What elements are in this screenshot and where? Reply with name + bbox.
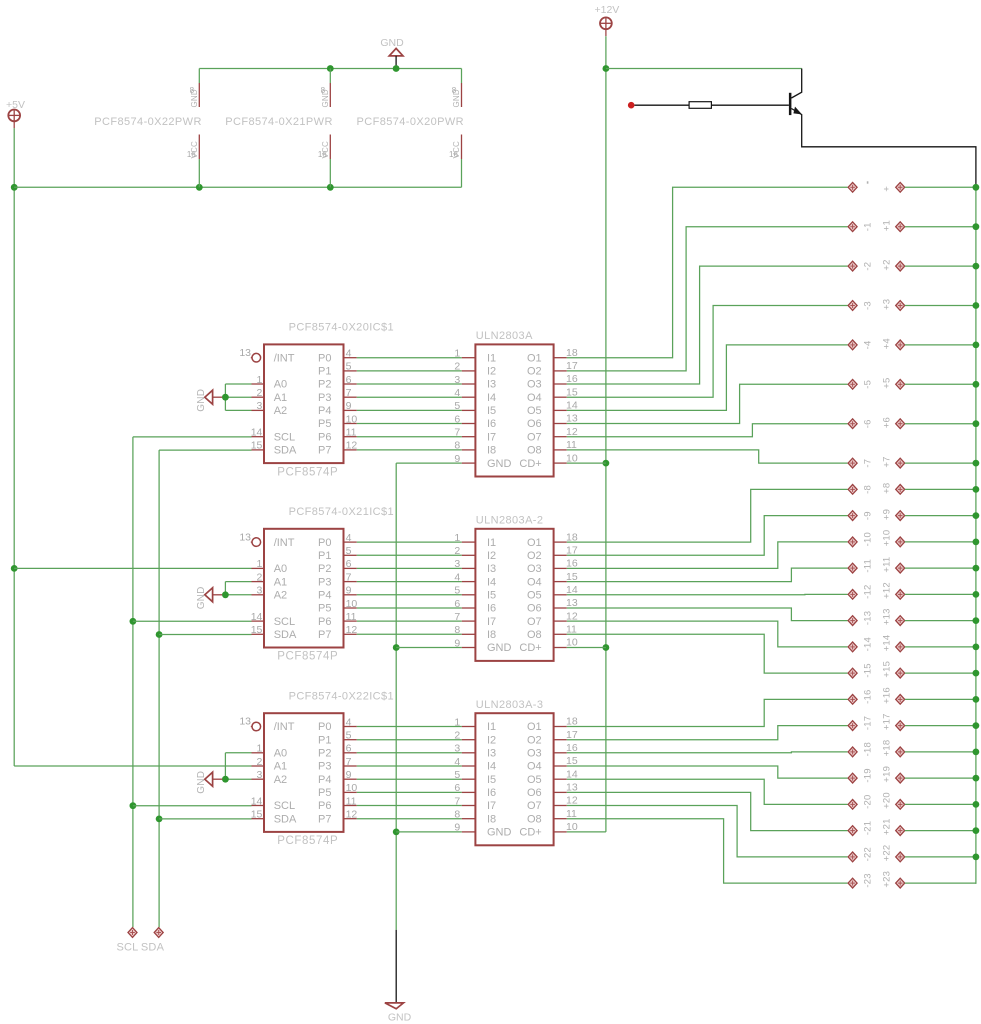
pin 15 SDA stub of PCF8574-0X20IC$1 [252,449,265,451]
svg-text:-13: -13 [862,611,873,625]
wire PCF8574-0X20PWR VCC pin [461,159,463,187]
pin 9 P4 stub of PCF8574-0X20IC$1 [344,409,357,411]
wire + pin row 20 to + rail [905,803,976,805]
pin 6 I6 stub of ULN2803A-2 [462,607,476,609]
wire PCF8574-0X22PWR VCC pin [198,159,200,187]
wire ULN2803A-3 O1 to connector row 16 [567,699,848,726]
node junction VCC rail / PWR21 [327,184,334,191]
svg-text:1: 1 [454,716,460,728]
svg-text:PCF8574-0X20PWR: PCF8574-0X20PWR [357,116,465,128]
pin 13 /INT bubble of PCF8574-0X22IC$1 [251,726,252,728]
node junction + rail row 17 [973,722,980,729]
svg-text:-16: -16 [862,690,873,704]
svg-text:3: 3 [257,585,263,597]
wire SCL bus rail [132,437,134,927]
wire ULN2803A O5 to connector row 4 [567,345,848,411]
svg-text:SDA: SDA [141,942,165,954]
pin 7 I7 stub of ULN2803A [462,436,476,438]
pin 6 I6 stub of ULN2803A [462,423,476,425]
transistor Q1 base bar [789,93,792,115]
svg-text:7: 7 [454,795,460,807]
wire tie row to pin of PCF8574-0X22IC$1 [225,778,251,780]
wire P3 to I4 [357,581,462,583]
wire + pin row 11 to + rail [905,567,976,569]
svg-text:-23: -23 [862,873,873,887]
svg-text:-2: -2 [862,262,873,271]
svg-text:+5: +5 [881,378,892,389]
svg-text:+: + [881,186,892,192]
wire + pin row 14 to + rail [905,646,976,648]
svg-text:+7: +7 [881,456,892,467]
svg-text:-20: -20 [862,795,873,809]
svg-text:-21: -21 [862,821,873,835]
svg-text:O7: O7 [527,431,542,443]
svg-text:I5: I5 [487,590,496,602]
svg-text:7: 7 [454,427,460,439]
wire address pin row to tie of PCF8574-0X22IC$1 [225,752,251,754]
svg-text:11: 11 [346,427,357,439]
wire SDA bus rail [158,450,160,927]
node junction + rail row 8 [973,486,980,493]
wire ULN2803A CD+ to +12V rail [567,462,606,464]
svg-text:O4: O4 [527,576,542,588]
svg-text:-5: -5 [862,380,873,389]
node junction SCL / IC3 [130,802,137,809]
node junction SCL / IC2 [130,618,137,625]
ground symbol GND (bottom) [385,1003,404,1009]
svg-text:I6: I6 [487,418,496,430]
svg-text:P2: P2 [318,379,331,391]
svg-text:13: 13 [239,531,251,543]
pin 18 O1 stub of ULN2803A-3 [554,726,567,728]
wire SCL to IC2 pin 14 [133,620,252,622]
pin 10 P5 stub of PCF8574-0X22IC$1 [344,791,357,793]
svg-text:-12: -12 [862,585,873,599]
wire + pin row 1 to + rail [905,226,976,228]
wire + pin row 5 to + rail [905,383,976,385]
svg-text:3: 3 [454,374,460,386]
node junction + rail row 12 [973,591,980,598]
svg-text:I1: I1 [487,537,496,549]
svg-text:9: 9 [346,400,352,412]
wire P0 to I1 [357,726,462,728]
svg-text:+6: +6 [881,417,892,428]
node junction GND rail / ULN2 GND [393,644,400,651]
svg-text:I7: I7 [487,616,496,628]
svg-text:I8: I8 [487,813,496,825]
pin connector +10 (row 10) right diamond [896,537,905,547]
wire tie row to pin of PCF8574-0X20IC$1 [225,396,251,398]
svg-text:7: 7 [346,756,352,768]
pin connector + (row 0) right diamond [896,182,905,192]
svg-text:-10: -10 [862,532,873,546]
svg-text:I2: I2 [487,550,496,562]
svg-text:O5: O5 [527,405,542,417]
svg-text:O2: O2 [527,550,542,562]
svg-text:2: 2 [257,571,263,583]
wire ULN2803A O1 to connector row 0 [567,187,848,357]
wire base net right [711,104,789,106]
op-amp PCF8574-0X21IC$1 (PCF8574 I/O expander U2) [264,529,344,648]
svg-text:I3: I3 [487,748,496,760]
svg-text:5: 5 [454,400,460,412]
wire ULN2803A-2 O3 to connector row 10 [567,542,848,569]
pin 8 GND stub of PCF8574-0X22PWR [198,83,200,107]
svg-text:P3: P3 [318,761,331,773]
pin 13 O6 stub of ULN2803A-3 [554,791,567,793]
pin 4 P0 stub of PCF8574-0X21IC$1 [344,541,357,543]
pin 2 A1 stub of PCF8574-0X22IC$1 [252,765,265,767]
svg-text:P3: P3 [318,576,331,588]
pin stub of +12V symbol [605,29,607,36]
svg-text:SDA: SDA [274,629,297,641]
pin 17 O2 stub of ULN2803A-3 [554,739,567,741]
svg-text:+12V: +12V [594,4,619,16]
wire ULN2803A O7 to connector row 6 [567,424,848,437]
svg-text:2: 2 [257,756,263,768]
wire + pin row 17 to + rail [905,725,976,727]
svg-text:6: 6 [346,374,352,386]
svg-text:8: 8 [454,809,460,821]
svg-text:GND: GND [196,586,207,609]
wire ULN2803A-2 O2 to connector row 9 [567,516,848,556]
wire + pin row 0 to + rail [905,186,976,188]
node junction GND rail / ULN3 GND [393,829,400,836]
pin 3 A2 stub of PCF8574-0X20IC$1 [252,409,265,411]
pin connector -8 (row 8) left diamond [848,485,857,495]
wire + pin row 16 to + rail [905,698,976,700]
svg-text:PCF8574-0X22PWR: PCF8574-0X22PWR [94,116,202,128]
wire + pin row 22 to + rail [905,856,976,858]
wire SDA to IC2 pin 15 [159,634,251,636]
pin connector -11 (row 11) left diamond [848,563,857,573]
pin 4 I4 stub of ULN2803A [462,396,476,398]
svg-text:14: 14 [251,427,263,439]
node junction + rail row 21 [973,827,980,834]
svg-text:O8: O8 [527,445,542,457]
pin 1 I1 stub of ULN2803A [462,357,476,359]
pin connector -3 (row 3) left diamond [848,301,857,311]
svg-text:-22: -22 [862,847,873,861]
svg-text:8: 8 [190,86,195,95]
node junction VCC rail / PWR22 [196,184,203,191]
pin 16 O3 stub of ULN2803A [554,383,567,385]
svg-text:-15: -15 [862,663,873,677]
svg-text:5: 5 [454,769,460,781]
svg-text:A1: A1 [274,761,287,773]
pin 6 P2 stub of PCF8574-0X22IC$1 [344,752,357,754]
wire P5 to I6 [357,607,462,609]
svg-text:SCL: SCL [274,431,295,443]
svg-text:PCF8574P: PCF8574P [277,835,338,847]
wire tie row to pin of PCF8574-0X21IC$1 [225,594,251,596]
pin connector -16 (row 16) left diamond [848,695,857,705]
wire + pin row 9 to + rail [905,515,976,517]
pin 7 P3 stub of PCF8574-0X20IC$1 [344,396,357,398]
node junction +12V rail / ULN1 CD+ [603,460,610,467]
pin connector -20 (row 20) left diamond [848,800,857,810]
svg-text:P7: P7 [318,813,331,825]
wire address tie vertical of PCF8574-0X21IC$1 [224,582,226,595]
pin 8 I8 stub of ULN2803A-3 [462,818,476,820]
pin 12 P7 stub of PCF8574-0X22IC$1 [344,818,357,820]
pin 2 A1 stub of PCF8574-0X20IC$1 [252,396,265,398]
wire P2 to I3 [357,383,462,385]
wire SDA to IC3 pin 15 [159,818,251,820]
svg-text:14: 14 [251,795,263,807]
pin connector -7 (row 7) left diamond [848,458,857,468]
wire ULN2803A-2 O4 to connector row 11 [567,568,848,582]
pin 16 O3 stub of ULN2803A-3 [554,752,567,754]
svg-text:O4: O4 [527,761,542,773]
svg-text:P5: P5 [318,418,331,430]
svg-text:3: 3 [257,769,263,781]
pin connector -23 (row 23) left diamond [848,878,857,888]
wire ULN2803A-2 O1 to connector row 8 [567,489,848,542]
svg-text:-9: -9 [862,511,873,520]
svg-text:14: 14 [251,611,263,623]
node junction + rail row 1 [973,223,980,230]
wire ULN2803A O4 to connector row 3 [567,306,848,398]
wire PCF8574-0X21PWR GND pin [329,69,331,84]
pin 7 P3 stub of PCF8574-0X22IC$1 [344,765,357,767]
wire + pin row 2 to + rail [905,265,976,267]
transistor Q1 emitter arrow [793,107,802,115]
node junction + rail row 19 [973,775,980,782]
pin 11 P6 stub of PCF8574-0X20IC$1 [344,436,357,438]
svg-text:ULN2803A-3: ULN2803A-3 [476,699,544,711]
svg-text:+3: +3 [881,299,892,310]
wire + output rail (right) [975,187,977,884]
node junction + rail row 6 [973,420,980,427]
svg-text:ULN2803A-2: ULN2803A-2 [476,515,544,527]
svg-text:-7: -7 [862,459,873,468]
svg-text:CD+: CD+ [519,827,541,839]
wire + pin row 4 to + rail [905,344,976,346]
wire ULN2803A-3 O6 to connector row 21 [567,792,848,830]
pin connector +2 (row 2) right diamond [896,261,905,271]
pin connector +6 (row 6) right diamond [896,419,905,429]
svg-text:-19: -19 [862,768,873,782]
pin 11 O8 stub of ULN2803A-3 [554,818,567,820]
pin 12 P7 stub of PCF8574-0X20IC$1 [344,449,357,451]
pin connector +8 (row 8) right diamond [896,485,905,495]
svg-text:+12: +12 [881,582,892,599]
svg-text:10: 10 [346,598,358,610]
svg-text:+18: +18 [881,740,892,757]
svg-text:PCF8574P: PCF8574P [277,651,338,663]
pin connector +3 (row 3) right diamond [896,301,905,311]
pin 10 CD+ stub of ULN2803A-3 [554,831,567,833]
pin 17 O2 stub of ULN2803A [554,370,567,372]
svg-text:+20: +20 [881,792,892,809]
svg-text:O3: O3 [527,379,542,391]
svg-text:CD+: CD+ [519,642,541,654]
pin connector -22 (row 22) left diamond [848,852,857,862]
pin 9 P4 stub of PCF8574-0X22IC$1 [344,778,357,780]
svg-text:SCL: SCL [274,800,295,812]
svg-text:P1: P1 [318,366,331,378]
wire +12V vertical rail (CD+ rail) [605,36,607,832]
svg-text:5: 5 [454,585,460,597]
pin 1 A0 stub of PCF8574-0X20IC$1 [252,383,265,385]
svg-text:11: 11 [346,611,357,623]
resistor R1 [689,102,711,109]
svg-text:/INT: /INT [274,721,295,733]
pin stub of +5V symbol [13,121,15,128]
svg-text:I1: I1 [487,352,496,364]
wire address pin row to tie of PCF8574-0X20IC$1 [225,383,251,385]
svg-text:12: 12 [346,624,358,636]
svg-text:13: 13 [239,716,251,728]
wire + pin row 23 to + rail [905,882,976,884]
wire + pin row 12 to + rail [905,593,976,595]
svg-text:A2: A2 [274,405,287,417]
pin SDA connector [154,928,163,938]
wire bottom VCC rail (+5V) [14,186,461,188]
pin 1 I1 stub of ULN2803A-2 [462,541,476,543]
wire P4 to I5 [357,778,462,780]
pin connector +13 (row 13) right diamond [896,616,905,626]
node junction + rail row 3 [973,302,980,309]
svg-text:I8: I8 [487,445,496,457]
svg-text:3: 3 [454,558,460,570]
pin 10 CD+ stub of ULN2803A-2 [554,647,567,649]
svg-text:GND: GND [487,827,512,839]
svg-text:6: 6 [454,598,460,610]
svg-text:O6: O6 [527,787,542,799]
pin connector - (row 0) left diamond [848,182,857,192]
svg-text:PCF8574-0X21IC$1: PCF8574-0X21IC$1 [289,506,394,518]
pin 4 P0 stub of PCF8574-0X20IC$1 [344,357,357,359]
pin 14 O5 stub of ULN2803A [554,409,567,411]
svg-text:O1: O1 [527,352,542,364]
svg-text:PCF8574-0X22IC$1: PCF8574-0X22IC$1 [289,691,394,703]
svg-text:4: 4 [346,348,352,360]
wire + pin row 10 to + rail [905,541,976,543]
svg-text:P0: P0 [318,721,331,733]
svg-text:1: 1 [454,532,460,544]
svg-text:6: 6 [346,558,352,570]
svg-text:I4: I4 [487,761,496,773]
pin 18 O1 stub of ULN2803A-2 [554,541,567,543]
svg-text:4: 4 [346,716,352,728]
op-amp PCF8574-0X22IC$1 (PCF8574 I/O expander U3) [264,713,344,832]
wire ULN2803A-2 O5 to connector row 12 [567,593,848,595]
pin connector -12 (row 12) left diamond [848,590,857,600]
pin connector +19 (row 19) right diamond [896,773,905,783]
node junction GND rail / GND symbol [393,65,400,72]
ground symbol at PCF8574-0X22IC$1 [205,772,213,786]
pin 14 SCL stub of PCF8574-0X20IC$1 [252,436,265,438]
pin 15 SDA stub of PCF8574-0X21IC$1 [252,633,265,635]
pin 16 O3 stub of ULN2803A-2 [554,567,567,569]
pin 6 I6 stub of ULN2803A-3 [462,791,476,793]
wire P3 to I4 [357,396,462,398]
pin 7 I7 stub of ULN2803A-2 [462,620,476,622]
pin 3 A2 stub of PCF8574-0X22IC$1 [252,778,265,780]
pin 9 GND stub of ULN2803A-2 [462,647,476,649]
wire ULN2803A-3 CD+ to +12V rail [567,831,606,833]
svg-text:I2: I2 [487,734,496,746]
wire P6 to I7 [357,436,462,438]
svg-text:4: 4 [346,532,352,544]
svg-text:ULN2803A: ULN2803A [476,330,533,342]
svg-text:P6: P6 [318,616,331,628]
pin 2 I2 stub of ULN2803A-2 [462,554,476,556]
svg-text:P0: P0 [318,352,331,364]
svg-text:SCL: SCL [274,616,295,628]
node address tie junction of PCF8574-0X21IC$1 [222,591,229,598]
pin 10 P5 stub of PCF8574-0X20IC$1 [344,423,357,425]
wire P6 to I7 [357,805,462,807]
svg-text:P2: P2 [318,563,331,575]
pin connector +12 (row 12) right diamond [896,590,905,600]
node junction + rail row 16 [973,696,980,703]
svg-text:O7: O7 [527,800,542,812]
pin 5 I5 stub of ULN2803A-3 [462,778,476,780]
pin 9 P4 stub of PCF8574-0X21IC$1 [344,594,357,596]
pin connector +17 (row 17) right diamond [896,721,905,731]
pin 11 P6 stub of PCF8574-0X21IC$1 [344,620,357,622]
pin 11 O8 stub of ULN2803A [554,449,567,451]
svg-text:O5: O5 [527,774,542,786]
pin 3 I3 stub of ULN2803A-3 [462,752,476,754]
node junction + rail row 11 [973,565,980,572]
svg-text:P3: P3 [318,392,331,404]
pin connector -6 (row 6) left diamond [848,419,857,429]
svg-text:7: 7 [454,611,460,623]
node junction + rail row 9 [973,512,980,519]
svg-text:+2: +2 [881,259,892,270]
svg-text:P7: P7 [318,445,331,457]
pin connector -5 (row 5) left diamond [848,379,857,389]
svg-text:GND: GND [380,37,404,49]
svg-text:PCF8574P: PCF8574P [277,466,338,478]
svg-text:GND: GND [196,771,207,794]
svg-text:O5: O5 [527,590,542,602]
svg-text:P1: P1 [318,550,331,562]
svg-text:P6: P6 [318,431,331,443]
svg-text:I3: I3 [487,563,496,575]
svg-text:P0: P0 [318,537,331,549]
wire +5V to IC2 A0 [14,567,251,569]
node junction + rail row 7 [973,460,980,467]
pin connector -1 (row 1) left diamond [848,222,857,232]
wire ULN1 GND pin to rail [396,462,462,464]
pin 6 P2 stub of PCF8574-0X21IC$1 [344,567,357,569]
net endpoint dot (red) [628,102,635,109]
svg-text:O1: O1 [527,721,542,733]
svg-text:I4: I4 [487,576,496,588]
svg-text:I1: I1 [487,721,496,733]
wire ULN2803A-3 O2 to connector row 17 [567,726,848,740]
svg-text:O1: O1 [527,537,542,549]
svg-text:+9: +9 [881,509,892,520]
pin 11 P6 stub of PCF8574-0X22IC$1 [344,805,357,807]
pin 5 P1 stub of PCF8574-0X22IC$1 [344,739,357,741]
supply +12V symbol [600,17,612,29]
svg-text:7: 7 [346,571,352,583]
svg-text:P1: P1 [318,734,331,746]
pin connector +16 (row 16) right diamond [896,695,905,705]
pin connector -9 (row 9) left diamond [848,511,857,521]
svg-text:O2: O2 [527,734,542,746]
svg-text:8: 8 [454,624,460,636]
pin 3 I3 stub of ULN2803A-2 [462,567,476,569]
svg-text:I7: I7 [487,800,496,812]
wire P2 to I3 [357,567,462,569]
